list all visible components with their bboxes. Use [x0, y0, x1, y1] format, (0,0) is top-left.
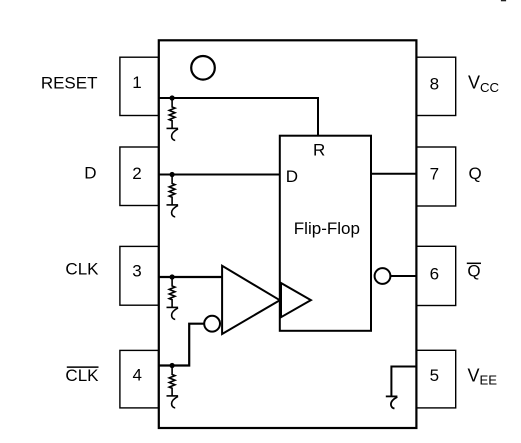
svg-text:8: 8: [430, 74, 439, 93]
svg-text:4: 4: [132, 366, 141, 385]
svg-text:5: 5: [430, 366, 439, 385]
svg-text:6: 6: [430, 264, 439, 283]
svg-text:3: 3: [132, 262, 141, 281]
svg-text:RESET: RESET: [41, 74, 98, 93]
svg-text:CLK: CLK: [65, 366, 99, 385]
svg-text:VEE: VEE: [468, 366, 498, 388]
svg-text:2: 2: [132, 164, 141, 183]
svg-text:1: 1: [132, 73, 141, 92]
svg-text:Q: Q: [469, 164, 482, 183]
svg-text:7: 7: [430, 164, 439, 183]
svg-text:D: D: [286, 167, 298, 186]
svg-text:Flip-Flop: Flip-Flop: [294, 219, 360, 238]
svg-text:R: R: [313, 140, 325, 159]
svg-text:VCC: VCC: [468, 72, 500, 95]
svg-text:CLK: CLK: [65, 259, 99, 278]
svg-text:Q: Q: [467, 262, 480, 281]
svg-text:D: D: [84, 163, 96, 182]
